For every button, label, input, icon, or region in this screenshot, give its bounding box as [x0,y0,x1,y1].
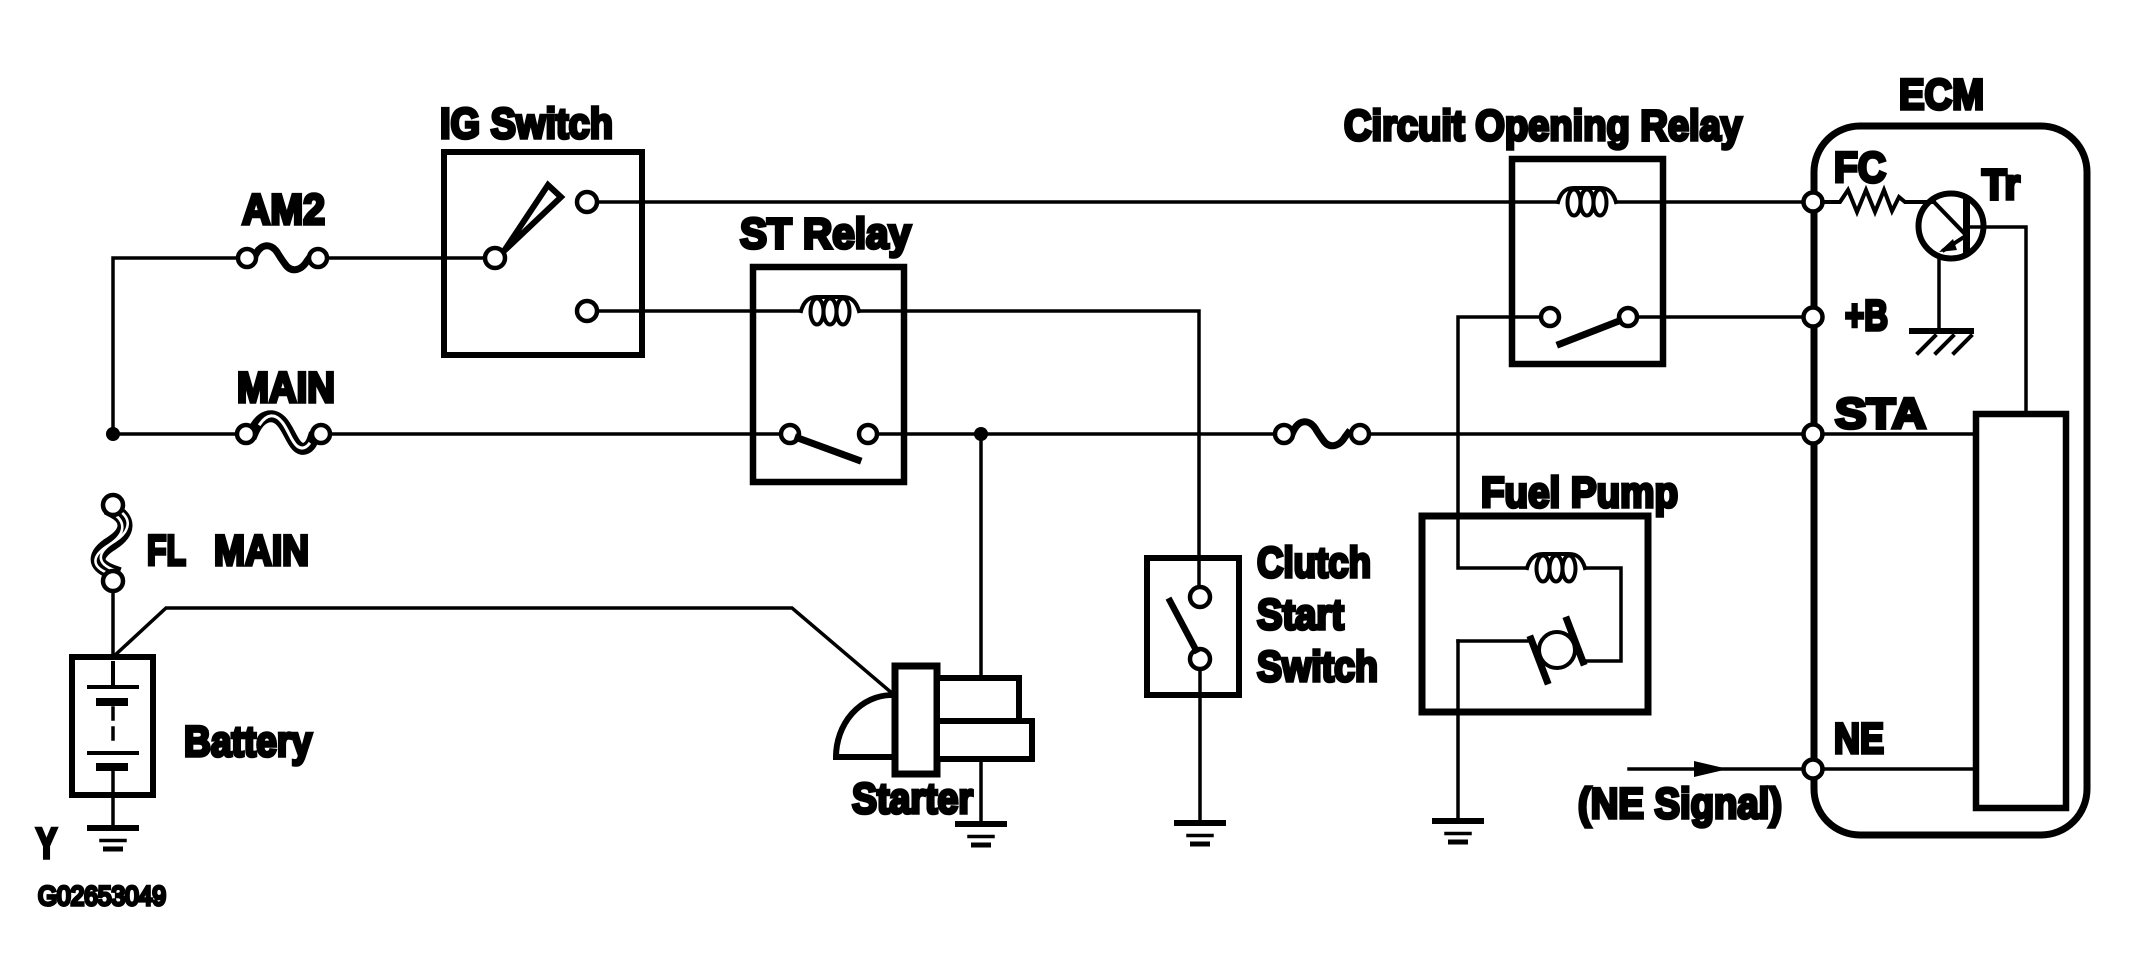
chassis ground Tr emitter [1912,331,1971,353]
resistor in FC line [1822,190,1934,212]
wire junction down to starter [979,434,983,678]
wire transistor collector to ECM internal block [1970,227,2026,411]
wire STA fuse to ECM STA terminal [1369,432,1804,436]
svg-text:Start: Start [1257,591,1344,639]
terminal FC [1804,193,1823,212]
wire AM2 fuse to IG switch common [327,256,485,260]
battery Battery [72,657,153,795]
wire FL MAIN to battery positive [111,591,115,687]
ground clutch start switch [1177,823,1223,844]
svg-text:Clutch: Clutch [1257,539,1371,587]
ECM module box [1814,126,2087,835]
fuel pump Fuel Pump [1422,516,1648,712]
svg-text:ST Relay: ST Relay [740,210,911,258]
ground battery [90,828,136,849]
wire ST relay right contact to STA fuse [877,432,1275,436]
fusible link MAIN [237,416,330,449]
wire COR right contact to ECM +B [1637,315,1804,319]
wire ST relay coil out, right and down to clutch start switch [859,311,1199,587]
wire left bus from AM2 line down to MAIN junction [113,258,238,434]
wire battery negative to ground [111,767,115,826]
fusible link FL MAIN [95,495,127,591]
svg-text:AM2: AM2 [242,186,325,234]
junction node MAIN bus [106,427,120,441]
svg-text:Battery: Battery [184,718,312,766]
wire IG upper contact to circuit opening relay coil to ECM FC [597,200,1558,204]
relay Circuit Opening Relay [1512,159,1663,364]
svg-text:(NE Signal): (NE Signal) [1578,780,1782,828]
wire battery to starter feed [113,608,893,694]
wire NE terminal to internal block [1822,767,1973,771]
svg-text:Starter: Starter [852,775,973,823]
terminal NE [1804,760,1823,779]
wire MAIN fuse to ST relay left contact [330,432,781,436]
svg-text:G02653049: G02653049 [38,881,166,911]
switch IG Switch [444,152,642,355]
fuse AM2 [238,246,327,270]
starter Starter [836,666,1032,774]
svg-text:STA: STA [1835,390,1926,438]
svg-text:Circuit Opening Relay: Circuit Opening Relay [1344,102,1742,150]
svg-text:Switch: Switch [1257,643,1378,691]
wire starter to ground [979,759,983,822]
junction node starter branch [974,427,988,441]
transistor Tr [1919,194,1984,259]
wire clutch switch to ground [1198,669,1202,821]
svg-text:NE: NE [1834,715,1884,763]
svg-text:Y: Y [36,820,57,868]
svg-text:Tr: Tr [1982,161,2020,209]
svg-text:FL: FL [147,527,186,575]
wire coil out to FC terminal [1616,200,1804,204]
svg-text:+B: +B [1845,292,1888,340]
wire IG lower contact to ST relay coil [597,309,801,313]
terminal STA [1804,425,1823,444]
svg-text:ECM: ECM [1899,71,1984,119]
wire transistor emitter to chassis ground [1937,256,1941,330]
terminal +B [1804,308,1823,327]
wire STA terminal to internal block [1822,432,1973,436]
svg-text:MAIN: MAIN [214,527,309,575]
wire fuel pump to ground [1456,712,1460,819]
svg-text:MAIN: MAIN [237,364,335,412]
svg-text:IG Switch: IG Switch [440,100,613,148]
NE signal arrow [1629,761,1804,777]
ECM internal block [1976,414,2066,808]
svg-text:FC: FC [1834,144,1886,192]
relay ST Relay [753,267,904,482]
ground starter [958,824,1004,845]
wire junction to MAIN fusible link [113,432,237,436]
fuse STA line [1275,422,1369,446]
wire COR left contact to fuel pump [1458,317,1541,516]
ground fuel pump [1435,821,1481,842]
svg-text:Fuel Pump: Fuel Pump [1481,469,1678,517]
switch Clutch Start Switch [1147,558,1239,695]
